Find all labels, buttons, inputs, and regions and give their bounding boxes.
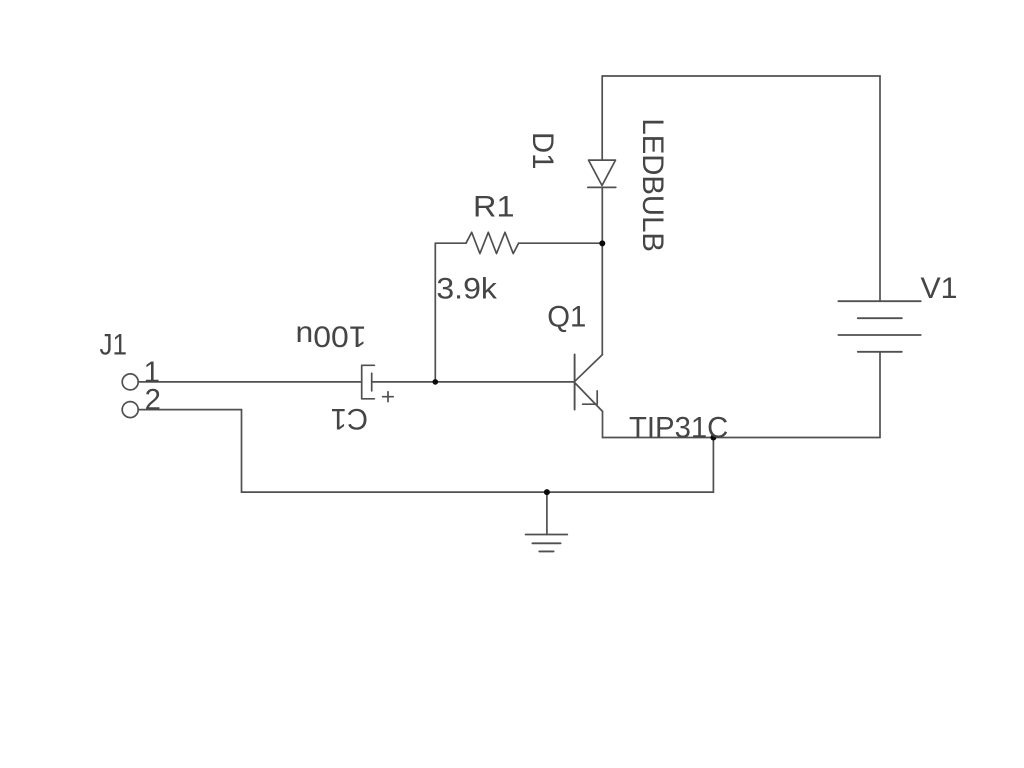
svg-text:3.9k: 3.9k bbox=[436, 273, 497, 306]
wire bottom net bbox=[242, 491, 714, 493]
junction collector net bbox=[599, 240, 605, 246]
wire pin2 horizontal bbox=[138, 409, 241, 411]
svg-text:LEDBULB: LEDBULB bbox=[636, 118, 669, 252]
svg-text:J1: J1 bbox=[100, 328, 128, 361]
resistor R1 bbox=[466, 232, 519, 253]
svg-text:C1: C1 bbox=[331, 402, 369, 435]
wire pin2 vertical bbox=[241, 410, 243, 493]
connector J1 pin 2 bbox=[122, 402, 138, 418]
ground bbox=[546, 492, 548, 534]
connector J1 pin 1 bbox=[122, 374, 138, 390]
wire emitter net bbox=[603, 437, 881, 439]
wire riser to R1 left bbox=[434, 243, 436, 382]
wire pin1 to C1 bbox=[138, 381, 361, 383]
wire C1 to Q1 base bbox=[372, 381, 575, 383]
svg-text:V1: V1 bbox=[921, 272, 958, 305]
svg-text:2: 2 bbox=[145, 384, 161, 417]
wire V1 positive lead bbox=[879, 76, 881, 301]
plus sign of C1 bbox=[383, 392, 394, 402]
svg-text:D1: D1 bbox=[526, 132, 559, 170]
junction emitter net bbox=[710, 435, 716, 441]
capacitor C1 bbox=[362, 365, 375, 399]
wire R1 left lead bbox=[435, 242, 466, 244]
wire V1 negative lead bbox=[879, 352, 881, 438]
svg-text:R1: R1 bbox=[473, 191, 515, 224]
svg-text:TIP31C: TIP31C bbox=[629, 412, 728, 445]
wire emitter down lead bbox=[602, 411, 604, 437]
svg-text:Q1: Q1 bbox=[547, 301, 586, 334]
wire D1 anode lead bbox=[601, 76, 603, 160]
wire top net from D1 to V1 bbox=[602, 75, 880, 77]
battery V1 bbox=[838, 301, 920, 352]
junction ground net bbox=[544, 489, 550, 495]
wire R1 right lead bbox=[519, 242, 603, 244]
wire ground drop bbox=[712, 438, 714, 493]
wire D1 cathode down to Q1 collector bbox=[601, 187, 603, 354]
diode D1 bbox=[589, 160, 616, 185]
svg-text:100u: 100u bbox=[296, 319, 367, 352]
junction base net bbox=[433, 379, 439, 385]
transistor Q1 bbox=[574, 355, 576, 410]
